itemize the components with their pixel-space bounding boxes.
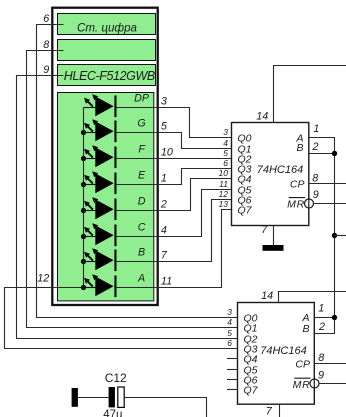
svg-text:1: 1 bbox=[161, 172, 167, 184]
svg-text:5: 5 bbox=[227, 328, 232, 338]
svg-text:2: 2 bbox=[318, 321, 325, 333]
U2 pin8 CP wire to right edge bbox=[314, 363, 346, 365]
display LED area box bbox=[58, 93, 154, 301]
svg-text:4: 4 bbox=[227, 317, 232, 327]
wire terminal to C12 bbox=[78, 397, 109, 399]
svg-text:3: 3 bbox=[223, 127, 228, 137]
junction dot anode rail bbox=[81, 259, 86, 264]
wire rail tap to right edge bbox=[335, 235, 346, 237]
U2 unconnected stub bbox=[227, 389, 238, 391]
LED segment F bbox=[84, 145, 117, 168]
svg-text:E: E bbox=[138, 170, 146, 182]
U2 pin9 MR wire to right edge bbox=[319, 383, 346, 385]
junction dot anode rail bbox=[81, 285, 86, 290]
svg-text:CP: CP bbox=[295, 358, 310, 370]
svg-text:4: 4 bbox=[223, 138, 228, 148]
junction dot anode rail bbox=[81, 234, 86, 239]
svg-text:8: 8 bbox=[312, 172, 318, 184]
svg-text:2: 2 bbox=[160, 198, 167, 210]
node dot U2 A junction bbox=[332, 315, 337, 320]
wire segment F to U1 pin 5 bbox=[116, 158, 232, 160]
svg-text:8: 8 bbox=[43, 39, 49, 51]
svg-text:6: 6 bbox=[43, 13, 49, 25]
LED segment B bbox=[84, 248, 117, 271]
svg-text:Q7: Q7 bbox=[244, 384, 259, 396]
svg-text:HLEC-F512GWB: HLEC-F512GWB bbox=[64, 69, 155, 83]
svg-text:G: G bbox=[137, 118, 145, 130]
U1 pin8 CP wire to right edge bbox=[309, 183, 346, 185]
svg-text:14: 14 bbox=[261, 290, 273, 302]
node dot U1 B junction bbox=[332, 151, 337, 156]
wire segment DP to U1 pin 3 bbox=[116, 108, 232, 138]
svg-text:10: 10 bbox=[161, 146, 173, 158]
junction dot anode rail bbox=[81, 208, 86, 213]
shift register U1 74HC164 box bbox=[232, 123, 309, 226]
wire segment A to U1 pin 13 bbox=[116, 210, 232, 288]
U1 pin9 MR wire to right edge bbox=[314, 203, 346, 205]
svg-text:74HC164: 74HC164 bbox=[257, 164, 303, 176]
svg-text:MR: MR bbox=[293, 379, 311, 391]
svg-text:CP: CP bbox=[290, 178, 305, 190]
wire C12 to bottom edge bbox=[124, 398, 206, 417]
svg-text:C12: C12 bbox=[105, 371, 127, 385]
svg-text:13: 13 bbox=[219, 199, 229, 209]
wire segment C to U1 pin 11 bbox=[116, 190, 232, 237]
svg-text:4: 4 bbox=[161, 224, 167, 236]
LED segment D bbox=[84, 197, 117, 220]
svg-text:9: 9 bbox=[43, 64, 49, 76]
U1 MR inversion bubble bbox=[305, 199, 314, 208]
svg-text:74HC164: 74HC164 bbox=[260, 345, 306, 357]
U2 pin 14 supply wire to right edge bbox=[279, 292, 346, 303]
junction dot anode rail bbox=[81, 156, 86, 161]
pin 8 wire to U2 Q1/pin4 bbox=[27, 51, 238, 328]
svg-text:D: D bbox=[138, 196, 146, 208]
capacitor C12 positive plate bbox=[109, 387, 115, 407]
U2 pin1 A wire to rail bbox=[314, 317, 334, 319]
svg-text:1: 1 bbox=[318, 303, 324, 315]
svg-text:B: B bbox=[138, 247, 145, 259]
U1 pin 14 supply wire to right edge bbox=[274, 66, 346, 123]
svg-text:B: B bbox=[296, 142, 303, 154]
U1 pin1 A wire and serial data rail down to U2 B bbox=[309, 138, 335, 334]
LED segment DP bbox=[84, 94, 117, 117]
display sub-block box: Ст. цифра bbox=[58, 14, 156, 35]
svg-text:3: 3 bbox=[161, 95, 167, 107]
svg-text:3: 3 bbox=[227, 307, 232, 317]
U2 unconnected stub bbox=[227, 358, 238, 360]
U2 unconnected stub bbox=[227, 379, 238, 381]
wire segment B to U1 pin 12 bbox=[116, 200, 232, 262]
svg-text:A: A bbox=[137, 273, 145, 285]
svg-text:5: 5 bbox=[223, 148, 228, 158]
capacitor C12 negative plate bbox=[118, 387, 124, 407]
svg-text:7: 7 bbox=[261, 224, 268, 236]
U1 pin2 B wire bbox=[309, 153, 335, 155]
node dot serial rail tap bbox=[332, 233, 337, 238]
LED segment A bbox=[84, 274, 117, 297]
wire segment G to U1 pin 4 bbox=[116, 133, 232, 149]
U1 pin 7 wire to ground bbox=[273, 226, 275, 246]
U2 unconnected stub bbox=[227, 369, 238, 371]
U2 pin 7 wire to bottom edge bbox=[279, 404, 281, 417]
svg-text:14: 14 bbox=[256, 111, 268, 123]
svg-text:9: 9 bbox=[313, 189, 319, 201]
svg-text:8: 8 bbox=[318, 352, 324, 364]
svg-text:12: 12 bbox=[219, 189, 229, 199]
svg-text:9: 9 bbox=[318, 370, 324, 382]
svg-text:MR: MR bbox=[287, 198, 305, 210]
LED segment C bbox=[84, 223, 117, 246]
svg-text:2: 2 bbox=[312, 141, 319, 153]
svg-text:47u: 47u bbox=[103, 409, 122, 417]
pin 9 wire to U2 Q2/pin5 bbox=[17, 76, 238, 339]
svg-text:5: 5 bbox=[161, 120, 168, 132]
LED segment G bbox=[84, 119, 117, 142]
pin 12 common anode wire to U2 Q3/pin6 bbox=[5, 288, 238, 349]
wire segment E to U1 pin 6 bbox=[116, 169, 232, 185]
svg-text:Q7: Q7 bbox=[238, 204, 253, 216]
svg-text:6: 6 bbox=[223, 158, 228, 168]
display sub-block box: empty bbox=[58, 40, 156, 61]
svg-text:12: 12 bbox=[37, 273, 49, 285]
svg-text:B: B bbox=[302, 323, 309, 335]
LED common anode rail bbox=[83, 108, 85, 288]
svg-text:7: 7 bbox=[161, 249, 168, 261]
U2 MR inversion bubble bbox=[310, 379, 319, 388]
svg-text:1: 1 bbox=[313, 123, 319, 135]
display sub-block box: HLEC-F512GWB bbox=[58, 65, 156, 86]
shift register U2 74HC164 box bbox=[238, 303, 315, 405]
svg-text:DP: DP bbox=[134, 93, 150, 105]
svg-text:10: 10 bbox=[219, 168, 229, 178]
supply terminal bar bbox=[72, 388, 78, 407]
svg-text:6: 6 bbox=[227, 338, 232, 348]
wire segment D to U1 pin 10 bbox=[116, 179, 232, 211]
junction dot anode rail bbox=[81, 182, 86, 187]
display module outer box HG1 bbox=[52, 8, 157, 305]
svg-text:Ст. цифра: Ст. цифра bbox=[77, 21, 138, 34]
svg-text:11: 11 bbox=[219, 179, 228, 189]
junction dot anode rail bbox=[81, 130, 86, 135]
svg-text:C: C bbox=[138, 222, 146, 234]
LED segment E bbox=[84, 171, 117, 194]
ground symbol bbox=[263, 245, 284, 251]
svg-text:7: 7 bbox=[266, 405, 273, 417]
svg-text:11: 11 bbox=[161, 275, 172, 287]
pin 6 wire to U2 Q0/pin3 bbox=[37, 25, 238, 318]
